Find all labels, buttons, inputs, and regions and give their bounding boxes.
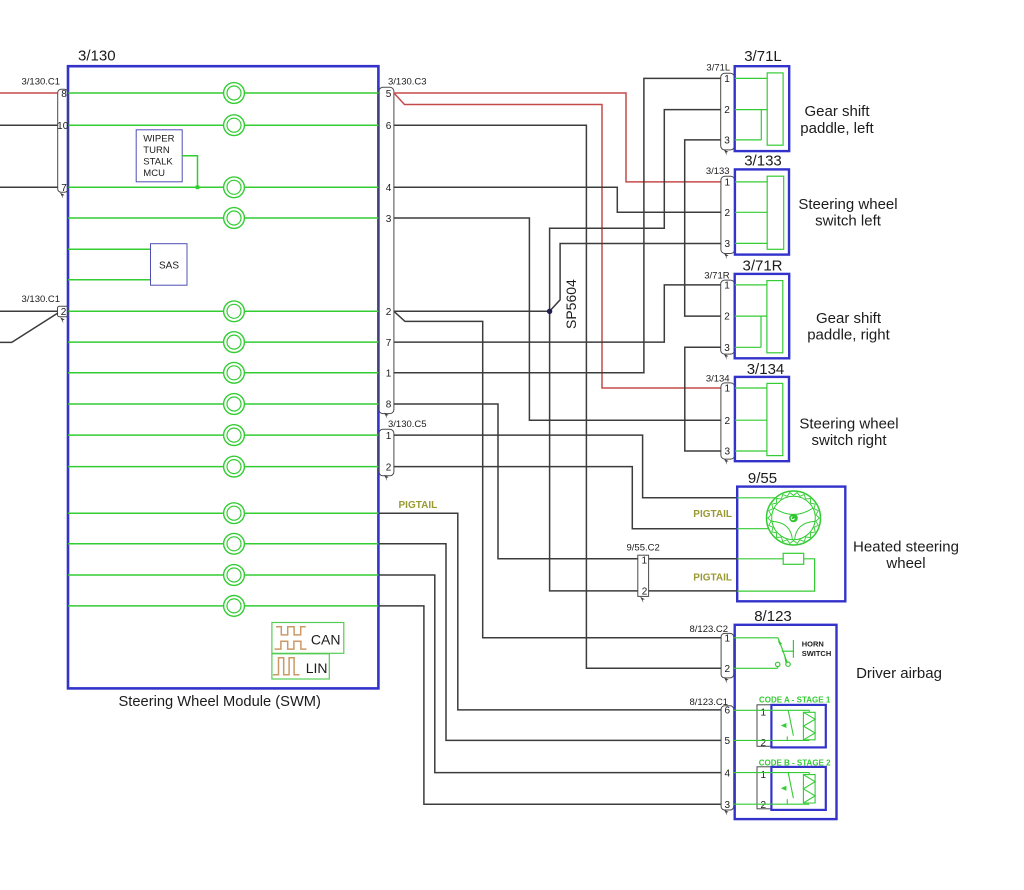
svg-text:SWITCH: SWITCH [802,649,832,658]
connector ring row11 [224,503,245,524]
component box 9/55 [737,487,845,602]
svg-text:Heated steering: Heated steering [853,539,959,556]
squiggle 8/123.C1 [724,810,729,816]
svg-text:SAS: SAS [159,261,179,272]
wire into C1.2 straight [0,310,58,312]
wire C3.2 jog to 8/123.C2 pin1 [394,311,721,638]
horn switch [734,638,794,669]
svg-text:Steering wheel: Steering wheel [799,415,898,432]
wire row11 pigtail 1 [68,512,378,514]
svg-text:wheel: wheel [885,555,925,572]
svg-text:8/123.C2: 8/123.C2 [690,624,729,635]
wire 3/133 pin3 to SP5604 [550,244,722,312]
svg-text:4: 4 [725,768,731,779]
svg-text:2: 2 [724,312,730,323]
svg-text:3/71L: 3/71L [744,48,782,65]
svg-text:WIPER: WIPER [143,134,174,145]
component box 3/71L [735,66,790,151]
svg-text:1: 1 [725,178,731,189]
svg-text:8/123: 8/123 [754,608,792,625]
svg-text:1: 1 [761,770,767,781]
wire into C1.2 diagonal [0,313,58,342]
component box 3/71R [735,274,790,358]
connector ring row2 [224,115,245,136]
squiggle 9/55.C2 [640,597,645,603]
wire C3.1 to 3/71L pin1 [394,78,721,372]
svg-text:4: 4 [386,183,392,194]
wire row2 C1.10 to C3.6 [68,124,378,126]
svg-text:switch left: switch left [815,213,882,230]
connector bracket 9/55.C2 [638,555,649,596]
connector ring row4 [224,208,245,229]
connector bracket 8/123.C1 [721,706,734,810]
svg-text:Driver airbag: Driver airbag [856,665,942,682]
wire row7 to C3.1 [68,372,378,374]
svg-text:2: 2 [725,416,731,427]
wire 3/71L pin3 to 3/71R pin2 [685,140,721,316]
svg-text:3/133: 3/133 [706,166,730,177]
connector ring row13 [224,565,245,586]
svg-text:2: 2 [725,664,731,675]
squib B pin box [757,767,771,809]
squib A pin box [757,705,771,747]
svg-text:switch right: switch right [811,432,887,449]
svg-text:1: 1 [725,384,731,395]
connector ring row14 [224,596,245,617]
wire pigtail3 to 8/123.C1 pin4 [379,575,721,773]
squiggle C1 pin2 [60,317,65,323]
connector box 3/130.C1 pin 2 [58,306,69,317]
wire row13 pigtail 3 [68,574,378,576]
svg-text:Steering wheel: Steering wheel [798,196,897,213]
squib B igniter box [771,767,825,810]
squiggle 3/71R [724,354,729,360]
wire pigtail4 to 8/123.C1 pin3 [379,606,721,804]
svg-text:1: 1 [386,369,392,380]
svg-text:3: 3 [724,136,730,147]
svg-text:Steering Wheel Module (SWM): Steering Wheel Module (SWM) [119,694,321,710]
svg-text:3/130: 3/130 [78,48,116,65]
wire C3.2 to SP5604 [394,310,550,312]
LIN symbol box [272,654,329,679]
wire row12 pigtail 2 [68,543,378,545]
wire red C3.5 to 3/133 pin1 [394,93,721,182]
wire SP5604 to 9/55.C2 pin2 [550,311,639,591]
wire 3/71L pin2 to SP5604 [550,110,721,312]
steering wheel icon [767,491,821,545]
wire row1 C1.8 to C3.5 [68,92,378,94]
wire row9 to C5.1 [68,434,378,436]
internal element 3/71L [735,73,783,145]
svg-text:2: 2 [724,105,730,116]
svg-text:2: 2 [761,800,767,811]
wire SAS stub 2 [68,279,151,281]
svg-text:1: 1 [724,74,730,85]
svg-text:3/133: 3/133 [744,153,782,170]
svg-text:3/130.C5: 3/130.C5 [388,419,427,430]
svg-text:paddle, right: paddle, right [807,326,890,343]
wire into C1.8 (red) [0,92,58,94]
wire row8 to C3.8 [68,403,378,405]
svg-text:SP5604: SP5604 [563,279,579,329]
svg-text:2: 2 [725,208,731,219]
svg-text:2: 2 [61,307,67,318]
svg-text:3: 3 [725,239,731,250]
wire C3.3 to 3/134 pin2 [394,218,721,420]
svg-text:5: 5 [725,736,731,747]
connector ring row10 [224,456,245,477]
svg-text:6: 6 [386,121,392,132]
connector ring row12 [224,533,245,554]
svg-text:8: 8 [386,400,392,411]
svg-text:2: 2 [642,587,648,598]
wire C5.2 to 9/55 pigtail 2 [394,467,737,529]
svg-text:Gear shift: Gear shift [816,310,882,327]
label Steering wheel switch left [798,196,897,230]
squiggle C1 top [60,193,65,199]
wire C5.1 to 9/55 pigtail 1 [394,435,737,498]
wire row6 to C3.7 [68,341,378,343]
svg-text:Gear shift: Gear shift [804,103,870,120]
connector ring row1 [224,83,245,104]
svg-text:3/71L: 3/71L [706,63,730,74]
wire 9/55.C2 pin2 to box [649,590,738,592]
squiggle 3/71L [724,150,729,156]
squiggle C3 [384,413,389,419]
squib B igniter element [734,773,815,805]
svg-text:CODE A - STAGE 1: CODE A - STAGE 1 [759,695,831,704]
wire 3/71R pin3 to 3/134 pin3 [685,347,721,451]
SAS box [151,244,188,286]
wire red C3.5 jog to 3/134 pin1 [394,93,721,388]
wire into C1.7 [0,186,58,188]
svg-text:HORN: HORN [802,639,824,648]
svg-text:1: 1 [724,281,730,292]
svg-text:3/130.C1: 3/130.C1 [22,294,61,305]
wire pigtail1 to 8/123.C1 pin6 [379,513,721,710]
heater resistor element [737,553,814,591]
wire row3 C1.7 to C3.4 [68,186,378,188]
connector bracket 3/71R [721,280,735,354]
svg-text:3/71R: 3/71R [742,257,782,274]
svg-text:5: 5 [386,89,392,100]
svg-text:9/55: 9/55 [748,470,777,487]
svg-text:PIGTAIL: PIGTAIL [399,500,438,511]
svg-text:7: 7 [386,338,392,349]
connector ring row5 [224,301,245,322]
component box 8/123 [735,625,837,819]
connector bracket 3/130.C3 [379,87,394,413]
svg-text:9/55.C2: 9/55.C2 [627,543,660,554]
squib A igniter box [771,705,825,748]
internal element 3/134 [735,383,783,455]
MCU box WIPER TURN STALK MCU [136,130,182,182]
svg-text:3: 3 [724,343,730,354]
connector bracket 3/134 [721,383,735,459]
wire pigtail2 to 8/123.C1 pin5 [379,544,721,741]
connector bracket 3/71L [721,73,735,150]
squiggle 3/134 [724,459,729,465]
SWM box 3/130 [68,66,378,688]
connector ring row9 [224,425,245,446]
svg-text:paddle, left: paddle, left [800,120,874,137]
label Gear shift paddle, right [807,310,890,344]
splice SP5604 dot [547,309,552,314]
svg-text:3: 3 [725,447,731,458]
connector bracket 8/123.C2 [721,633,734,678]
svg-text:LIN: LIN [306,660,328,676]
wire MCU to row3 [182,156,197,188]
svg-text:8: 8 [61,89,67,100]
wire C3.6 to 8/123.C2 pin2 [394,125,721,668]
squiggle 8/123.C2 [724,677,729,683]
svg-text:1: 1 [386,431,392,442]
svg-text:2: 2 [386,462,392,473]
svg-text:1: 1 [761,708,767,719]
connector bracket 3/130.C1 pins 8,10,7 [58,89,68,192]
svg-text:STALK: STALK [143,157,173,168]
svg-text:CAN: CAN [311,632,341,648]
svg-text:3/134: 3/134 [747,361,785,378]
internal element 3/133 [735,176,784,249]
svg-text:PIGTAIL: PIGTAIL [693,509,732,520]
wire row5 C1.2 to C3.2 [68,310,378,312]
svg-text:MCU: MCU [143,168,165,179]
wire SAS stub 1 [68,248,151,250]
component box 3/134 [735,377,789,461]
svg-text:7: 7 [61,183,67,194]
label HORN SWITCH [802,639,832,658]
wire C3.7 to 3/71R pin1 [394,285,721,342]
svg-text:6: 6 [725,706,731,717]
CAN symbol box [272,623,344,654]
connector bracket 3/133 [721,176,735,253]
svg-text:3: 3 [725,800,731,811]
svg-text:1: 1 [642,555,648,566]
svg-text:PIGTAIL: PIGTAIL [693,573,732,584]
svg-text:3/130.C3: 3/130.C3 [388,77,427,88]
wire 9/55.C2 pin1 to box [649,558,738,560]
wire C3.8 to 9/55.C2 pin1 [394,404,638,559]
label Steering wheel switch right [799,415,898,449]
internal element 3/71R [735,281,783,353]
svg-text:1: 1 [725,634,731,645]
label Heated steering wheel [853,539,959,573]
connector ring row8 [224,394,245,415]
wire into C1.10 [0,124,58,126]
connector ring row6 [224,332,245,353]
svg-text:2: 2 [386,307,392,318]
squiggle 3/133 [724,253,729,259]
wire pigtail 1 inside 9/55 [737,497,776,499]
squib A igniter element [734,710,815,740]
wire pigtail 2 inside 9/55 [737,528,769,530]
label Gear shift paddle, left [800,103,874,137]
wire row10 to C5.2 [68,466,378,468]
wire row4 to C3.3 [68,217,378,219]
connector bracket 3/130.C5 [379,429,394,476]
connector ring row7 [224,362,245,383]
wire row14 pigtail 4 [68,605,378,607]
connector ring row3 [224,177,245,198]
squiggle C5 [384,475,389,481]
svg-text:10: 10 [57,121,69,132]
component box 3/133 [735,169,789,254]
wire C3.4 to 3/133 pin2 [394,187,721,212]
svg-text:TURN: TURN [143,145,170,156]
svg-text:3: 3 [386,214,392,225]
svg-text:2: 2 [761,738,767,749]
junction dot MCU row3 [196,185,200,189]
svg-text:3/130.C1: 3/130.C1 [22,77,61,88]
